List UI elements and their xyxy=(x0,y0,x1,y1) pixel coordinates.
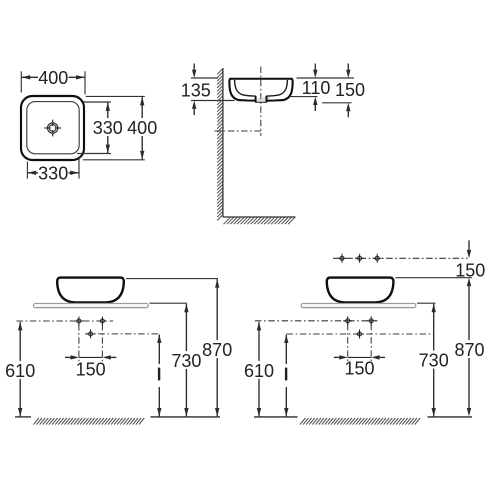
svg-text:610: 610 xyxy=(244,361,274,381)
svg-text:870: 870 xyxy=(202,340,232,360)
svg-text:330: 330 xyxy=(93,118,123,138)
svg-text:110: 110 xyxy=(302,78,331,98)
svg-text:870: 870 xyxy=(454,340,484,360)
svg-text:730: 730 xyxy=(171,351,201,371)
svg-text:330: 330 xyxy=(38,164,68,184)
svg-text:150: 150 xyxy=(76,359,106,379)
svg-text:150: 150 xyxy=(344,358,374,378)
svg-text:400: 400 xyxy=(127,118,157,138)
svg-text:730: 730 xyxy=(419,351,449,371)
svg-text:135: 135 xyxy=(181,81,211,101)
svg-text:150: 150 xyxy=(335,80,365,100)
svg-text:610: 610 xyxy=(5,361,35,381)
svg-text:400: 400 xyxy=(38,68,68,88)
svg-text:150: 150 xyxy=(455,261,485,281)
